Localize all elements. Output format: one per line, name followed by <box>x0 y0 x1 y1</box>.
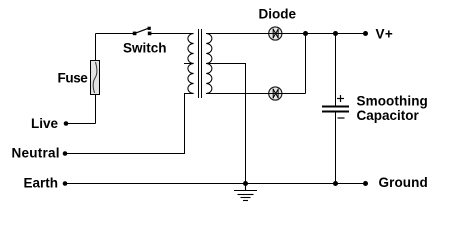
wire secondary centre tap <box>206 64 245 184</box>
diode D1 symbol <box>273 29 279 38</box>
transformer core <box>198 29 200 98</box>
svg-text:Earth: Earth <box>24 176 59 191</box>
fuse element squiggle <box>93 62 97 93</box>
capacitor C1 bottom lead <box>335 112 337 184</box>
capacitor C1 top lead <box>335 34 337 107</box>
wire Live vertical through fuse <box>95 34 97 124</box>
switch blade tip <box>148 27 151 30</box>
node Live terminal <box>64 121 69 126</box>
diode D2 symbol <box>273 89 279 98</box>
capacitor polarity plus <box>337 95 344 102</box>
transformer T1 primary winding <box>188 34 194 94</box>
svg-text:Ground: Ground <box>379 175 428 190</box>
node V+ terminal <box>363 31 368 36</box>
capacitor polarity minus <box>338 117 345 119</box>
wire primary bottom to neutral <box>65 94 194 154</box>
svg-text:Neutral: Neutral <box>12 146 60 161</box>
wire earth rail <box>65 183 366 185</box>
diode D1 circle <box>269 27 282 40</box>
switch blade <box>135 28 148 33</box>
node Earth terminal <box>63 181 68 186</box>
switch right contact <box>148 32 152 36</box>
node rectifier junction <box>303 31 308 36</box>
node capacitor top junction <box>333 31 338 36</box>
wire top rail to switch <box>96 33 135 35</box>
svg-text:Capacitor: Capacitor <box>357 108 420 123</box>
svg-text:Diode: Diode <box>259 7 297 22</box>
wire secondary bottom to diode D2 <box>206 93 305 95</box>
wire switch to transformer primary <box>151 33 194 35</box>
svg-text:Live: Live <box>31 116 59 131</box>
svg-text:V+: V+ <box>376 27 394 42</box>
svg-text:Switch: Switch <box>123 41 167 56</box>
node Ground terminal <box>363 181 368 186</box>
wire Live horizontal <box>66 123 96 125</box>
transformer secondary winding <box>206 34 212 94</box>
wire secondary top to junction <box>206 33 305 35</box>
node Neutral terminal <box>63 151 68 156</box>
wire V+ rail <box>306 33 366 35</box>
node capacitor bottom junction <box>333 181 338 186</box>
transformer primary mid stub <box>184 63 194 65</box>
node ground junction <box>243 181 248 186</box>
svg-text:Smoothing: Smoothing <box>357 94 428 109</box>
switch S1 left contact <box>133 32 137 36</box>
capacitor C1 plates <box>322 106 349 108</box>
wire rectifier vertical join <box>305 34 307 94</box>
fuse F1 body <box>91 61 100 95</box>
ground symbol <box>234 184 257 201</box>
diode D2 circle <box>269 87 282 100</box>
svg-text:Fuse: Fuse <box>58 71 89 86</box>
